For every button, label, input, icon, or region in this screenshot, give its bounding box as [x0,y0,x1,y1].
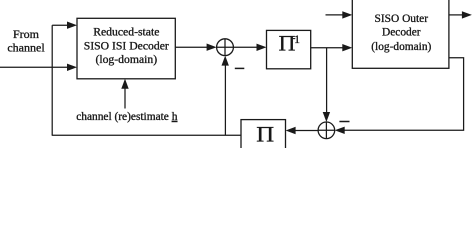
wire branch down into S2 top input [323,48,330,122]
svg-text:SISO ISI Decoder: SISO ISI Decoder [84,40,169,53]
box U1 Reduced-state SISO ISI Decoder [77,18,175,79]
wire top-left into U1 upper input [52,22,77,29]
box U3 SISO Outer Decoder [352,0,449,68]
wire U1 output into S1 [175,44,216,51]
wire bottom feedback run [52,134,241,136]
box U4 interleaver PI [241,120,286,152]
wire U3 extrinsic feedback down to S2 [335,58,464,134]
wire branch up into S1 lower input [222,56,229,136]
svg-text:SISO Outer: SISO Outer [375,13,429,25]
svg-text:Reduced-state: Reduced-state [93,26,159,39]
wire channel estimate arrow into U1 bottom [121,79,128,109]
adder S2 (circle with plus) [318,122,335,139]
svg-text:From: From [13,27,40,41]
wire S1 output into U2 [233,44,266,51]
svg-text:Π: Π [256,122,274,146]
wire U3 decoded output to right edge [449,11,472,18]
svg-text:Decoder: Decoder [382,27,421,39]
svg-text:channel (re)estimate h: channel (re)estimate h [76,111,178,123]
svg-text:channel: channel [7,41,45,55]
svg-text:1: 1 [294,34,300,46]
wire from channel into U1 middle input [0,64,77,71]
svg-text:(log-domain): (log-domain) [371,41,431,53]
adder S1 (circle with plus) [217,39,234,56]
svg-text:(log-domain): (log-domain) [95,53,157,66]
wire feedback left vertical riser [51,25,53,135]
wire U2 output into U3 lower input [311,44,353,51]
label From channel [7,27,45,55]
wire external a-priori arrow into U3 upper input [326,11,353,18]
box U2 inverse interleaver PI^-1 [267,30,311,68]
minus label for S1 lower input [235,67,245,69]
wire S2 output into U4 [286,127,319,134]
minus label for S2 top input [339,121,349,123]
